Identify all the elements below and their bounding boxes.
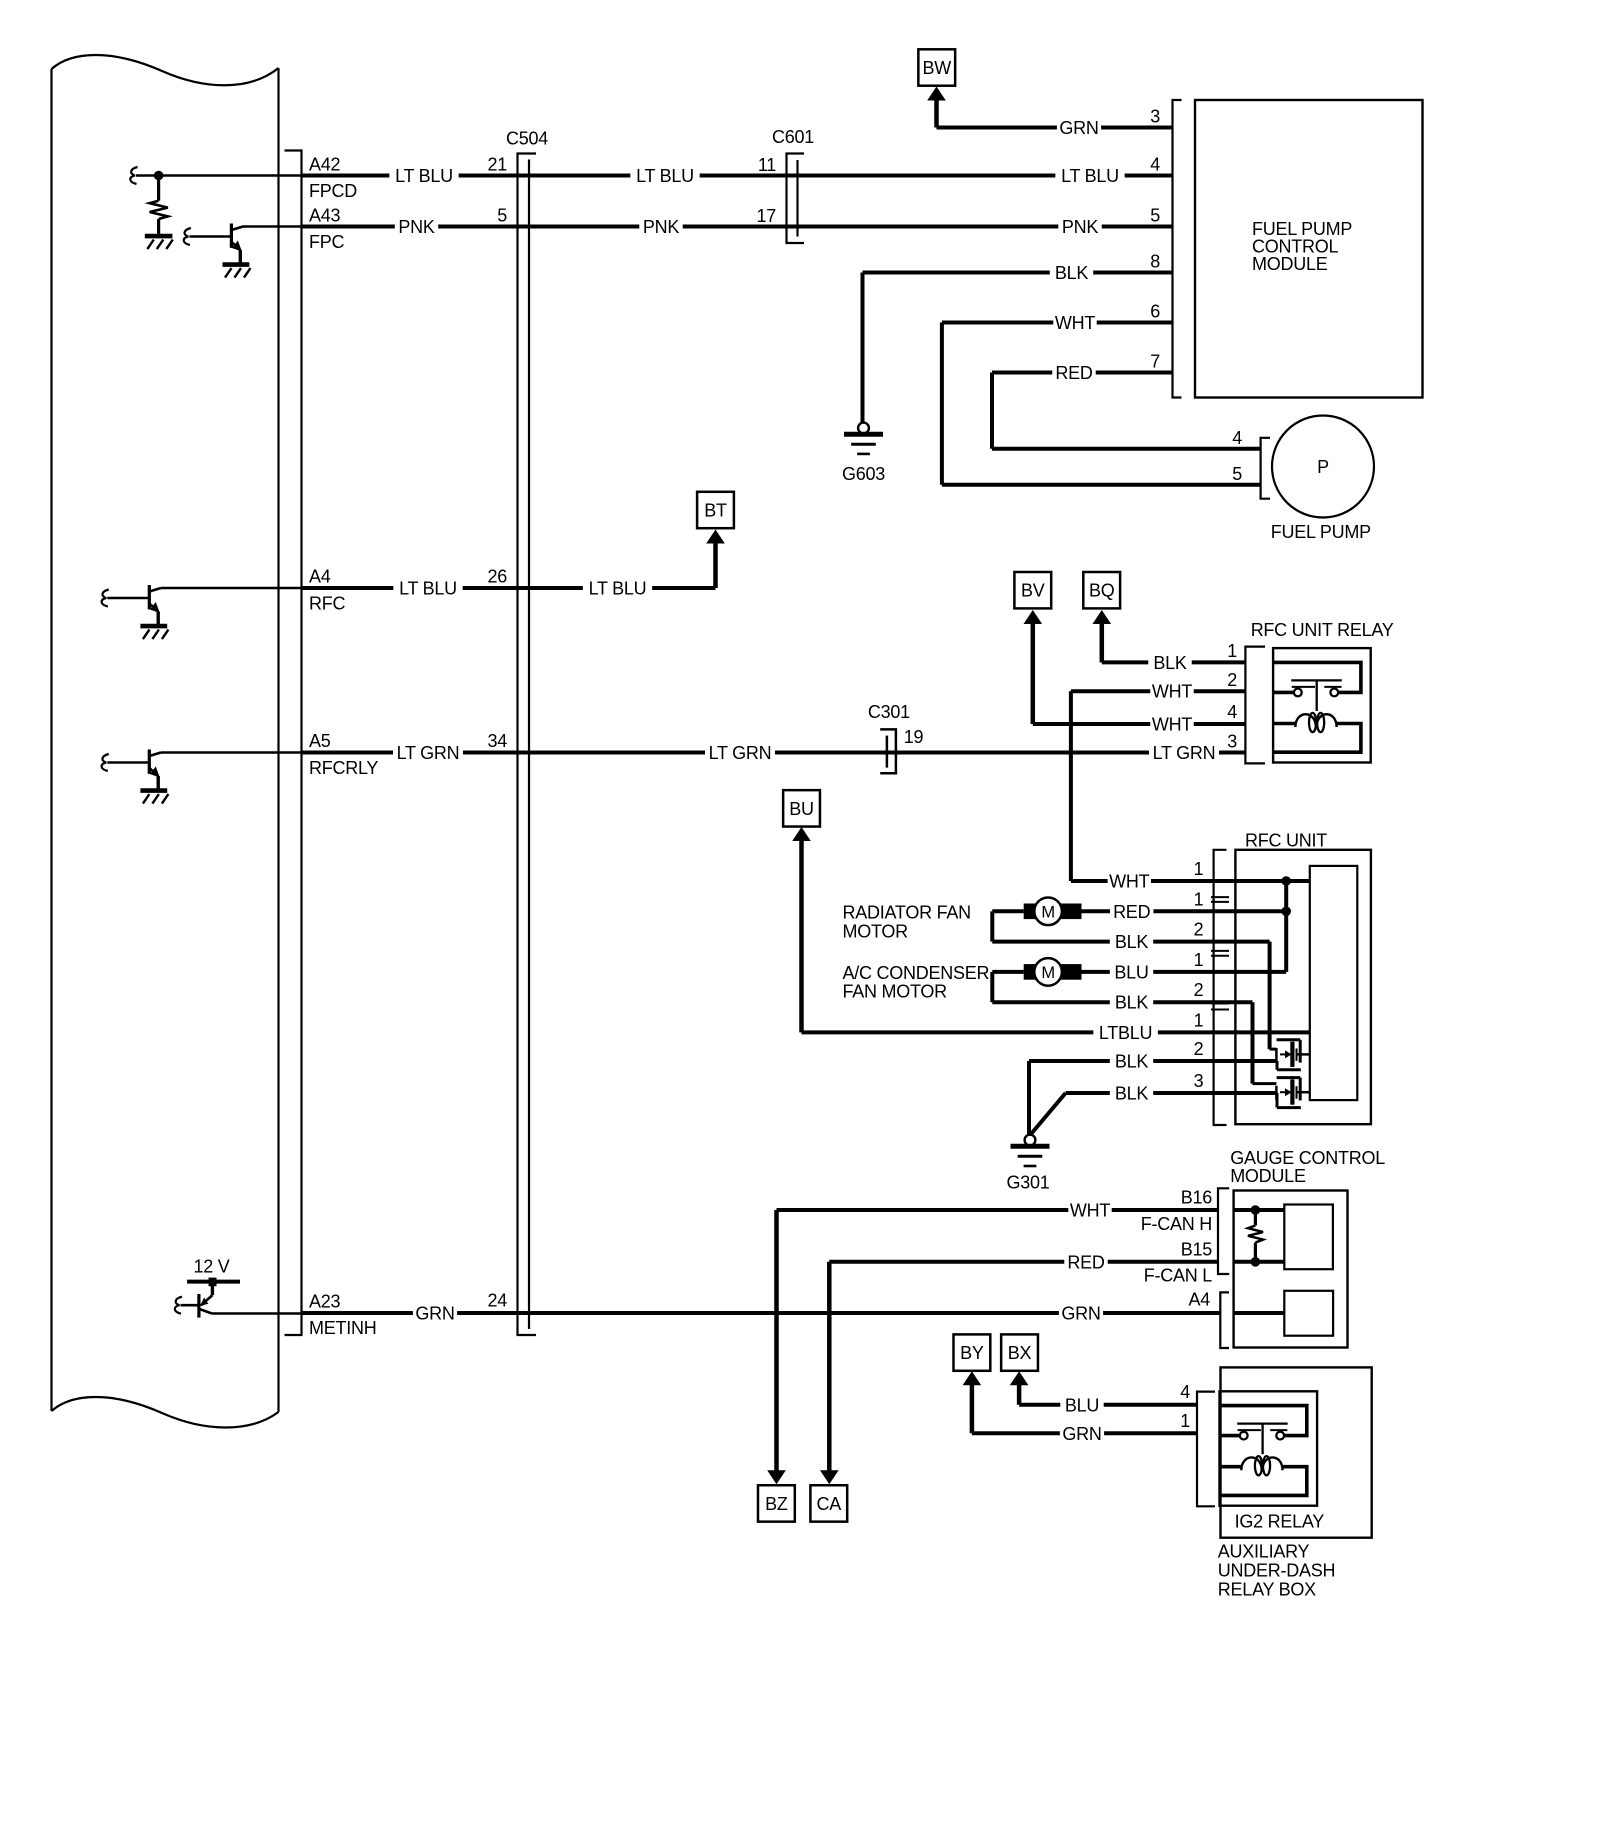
svg-text:PNK: PNK (643, 217, 680, 237)
RFC unit inner control block (1310, 866, 1358, 1100)
pin number 5 (C504) (497, 206, 507, 226)
svg-text:6: 6 (1150, 302, 1160, 322)
svg-text:RED: RED (1055, 363, 1093, 383)
svg-text:2: 2 (1227, 670, 1237, 690)
ground G603 (844, 423, 883, 454)
svg-text:BLK: BLK (1115, 993, 1149, 1013)
svg-text:5: 5 (1232, 464, 1242, 484)
svg-text:GRN: GRN (1062, 1424, 1101, 1444)
wire LTBLU (BU to RFC unit pin 1) (802, 1023, 1310, 1043)
wire A5 internal (thin) (161, 751, 302, 754)
wire WHT F-CAN H (GCM B16 to BZ) (777, 1201, 1219, 1473)
supply 12 V bar (187, 1278, 240, 1287)
IG2 relay K2 internals (contact + coil) (1219, 1406, 1307, 1496)
svg-text:WHT: WHT (1152, 715, 1192, 735)
svg-text:CA: CA (817, 1494, 842, 1514)
ground G301 (1011, 1135, 1050, 1166)
auxiliary under-dash relay box outline (1221, 1367, 1372, 1537)
pin number 4 (RFC unit relay) (1227, 702, 1237, 722)
svg-text:4: 4 (1180, 1382, 1190, 1402)
pin number 8 (FPCM) (1150, 252, 1160, 272)
GCM pin bracket (A4) (1220, 1292, 1229, 1348)
wire B15 internal (1234, 1260, 1285, 1264)
RFC unit U-RFC box (1235, 850, 1371, 1124)
svg-text:LT BLU: LT BLU (1061, 166, 1119, 186)
svg-text:C601: C601 (772, 127, 814, 147)
wire GRN (BY to IG2 relay pin 1) (972, 1424, 1197, 1444)
svg-text:GAUGE CONTROL: GAUGE CONTROL (1230, 1148, 1385, 1168)
svg-text:M: M (1041, 904, 1055, 922)
wire GRN (to FPCM pin 3) (937, 118, 1173, 138)
connector C601 label (772, 127, 814, 147)
pin number 34 (C504) (487, 731, 507, 751)
wire WHT (relay pin2 vert to RFC unit pin 1) (1071, 872, 1310, 892)
fuel pump label (1271, 522, 1371, 542)
IG2 relay label (1235, 1512, 1325, 1532)
svg-text:1: 1 (1194, 1011, 1204, 1031)
off-page connector BU (783, 790, 820, 826)
svg-text:MODULE: MODULE (1252, 254, 1328, 274)
svg-text:GRN: GRN (1061, 1304, 1100, 1324)
svg-text:WHT: WHT (1055, 313, 1095, 333)
pin number 4 (fuel pump) (1232, 428, 1242, 448)
svg-text:BLK: BLK (1115, 1084, 1149, 1104)
svg-text:F-CAN H: F-CAN H (1141, 1214, 1212, 1234)
svg-text:RFCRLY: RFCRLY (309, 758, 378, 778)
svg-text:B16: B16 (1181, 1188, 1213, 1208)
RFC unit relay pin bracket (1245, 647, 1265, 764)
svg-text:WHT: WHT (1109, 872, 1149, 892)
junction dot (RED bus) (1281, 907, 1291, 917)
pin number 5 (fuel pump) (1232, 464, 1242, 484)
svg-text:RFC UNIT: RFC UNIT (1245, 831, 1327, 851)
pin number A4 (GCM) (1188, 1290, 1210, 1310)
off-page connector CA (810, 1485, 847, 1521)
supply 12 V label (193, 1257, 229, 1277)
svg-text:3: 3 (1150, 107, 1160, 127)
svg-text:FUEL PUMP: FUEL PUMP (1271, 522, 1371, 542)
svg-text:A4: A4 (309, 567, 331, 587)
wire WHT (BV to RFC unit relay pin 4) (1033, 715, 1246, 735)
wire A4 internal (thin) (161, 587, 302, 590)
connector C504 label (506, 129, 548, 149)
svg-text:C301: C301 (868, 702, 910, 722)
arrow to BV (1024, 610, 1043, 724)
wire LT GRN (C301 to RFC unit relay pin 3) (897, 743, 1245, 763)
wire BLK (M2 return, RFC unit pin 2) (992, 993, 1276, 1084)
net F-CAN L label (1144, 1266, 1212, 1286)
wire BLK (RFC unit pin 2 to G301) (1029, 1052, 1277, 1135)
svg-text:BLU: BLU (1065, 1395, 1099, 1415)
svg-text:1: 1 (1180, 1411, 1190, 1431)
svg-text:FPCD: FPCD (309, 181, 357, 201)
pin number 26 (C504) (487, 567, 507, 587)
wire WHT (RFC unit relay pin 2, down to RFC unit) (1071, 682, 1246, 881)
svg-text:34: 34 (487, 731, 507, 751)
pin number 2 (RFC unit, BLK M2) (1194, 980, 1204, 1000)
svg-text:AUXILIARY: AUXILIARY (1218, 1541, 1310, 1561)
arrow to BZ (767, 1470, 786, 1484)
svg-text:BQ: BQ (1089, 581, 1115, 601)
pin number 1 (RFC unit relay) (1227, 641, 1237, 661)
svg-text:A5: A5 (309, 731, 331, 751)
pin number 3 (RFC unit, BLK gnd) (1194, 1071, 1204, 1091)
svg-text:RFC UNIT RELAY: RFC UNIT RELAY (1251, 620, 1394, 640)
connector break marks (RFC unit bracket) (1211, 897, 1229, 1009)
svg-text:12 V: 12 V (193, 1257, 229, 1277)
A/C condenser fan motor M2 (1024, 958, 1082, 986)
ground G603 label (842, 464, 885, 484)
svg-text:RFC: RFC (309, 594, 345, 614)
fuel pump pin bracket (1261, 438, 1270, 499)
svg-text:BY: BY (960, 1343, 984, 1363)
net FPC label (309, 232, 345, 252)
net RFCRLY label (309, 758, 378, 778)
svg-text:2: 2 (1194, 920, 1204, 940)
svg-text:B15: B15 (1181, 1240, 1213, 1260)
svg-text:LT GRN: LT GRN (1153, 743, 1216, 763)
svg-text:MOTOR: MOTOR (843, 922, 909, 942)
svg-text:RADIATOR FAN: RADIATOR FAN (843, 903, 971, 923)
A/C condenser fan motor label (843, 963, 990, 1002)
svg-text:BZ: BZ (765, 1494, 788, 1514)
svg-text:BLK: BLK (1153, 653, 1187, 673)
wire motor M1 loop (992, 911, 1023, 941)
svg-text:P: P (1317, 457, 1329, 477)
pin number 1 (RFC unit, WHT) (1194, 859, 1204, 879)
RFC unit relay label (1251, 620, 1394, 640)
pin number 2 (RFC unit, BLK M1) (1194, 920, 1204, 940)
svg-text:11: 11 (758, 155, 776, 175)
wire Q1 source to pin 2 BLK (1276, 1061, 1279, 1070)
ground (resistor, chassis) (145, 236, 173, 249)
svg-text:FPC: FPC (309, 232, 345, 252)
svg-text:5: 5 (497, 206, 507, 226)
junction dot A42/resistor (154, 171, 164, 181)
svg-text:A/C CONDENSER: A/C CONDENSER (843, 963, 990, 983)
svg-text:LT BLU: LT BLU (636, 166, 694, 186)
wire RED (M1 to RFC unit pin 1) (1082, 902, 1287, 922)
svg-text:5: 5 (1150, 206, 1160, 226)
connector C301 (880, 729, 896, 773)
ground (Q-FPC emitter) (0, 0, 1, 1)
pin number B16 (1181, 1188, 1213, 1208)
wire B16 internal (1234, 1208, 1285, 1212)
wire BLK (RFC unit pin 3 to G301, diagonal) (1031, 1084, 1277, 1135)
wire A23 internal (thin) (212, 1312, 302, 1315)
svg-text:19: 19 (904, 727, 924, 747)
svg-text:UNDER-DASH: UNDER-DASH (1218, 1561, 1336, 1581)
pin number 6 (FPCM) (1150, 302, 1160, 322)
terminating resistor (F-CAN, in GCM) (1248, 1210, 1263, 1262)
pin A4 label (309, 567, 331, 587)
svg-text:PNK: PNK (398, 217, 435, 237)
svg-text:A23: A23 (309, 1292, 341, 1312)
pin number 3 (RFC unit relay) (1227, 732, 1237, 752)
IG2 relay K2 box (1220, 1391, 1318, 1505)
off-page connector BY (954, 1334, 991, 1370)
radiator fan motor label (843, 903, 971, 942)
junction dot (WHT bus) (1281, 876, 1291, 886)
wire A4 LT BLU (ECM to C504) (302, 579, 537, 599)
svg-text:BLU: BLU (1114, 962, 1148, 982)
svg-text:BLK: BLK (1115, 1052, 1149, 1072)
wire LT BLU (C504 to BT) (536, 539, 716, 599)
wire WHT (FPCM pin 6 to fuel pump 5) (942, 313, 1261, 485)
svg-text:8: 8 (1150, 252, 1160, 272)
transistor Q-FPC (NPN low-side) (184, 224, 251, 278)
svg-text:M: M (1041, 964, 1055, 982)
svg-text:F-CAN L: F-CAN L (1144, 1266, 1212, 1286)
off-page connector BV (1014, 572, 1051, 608)
arrow to BY (963, 1371, 982, 1433)
pin number 4 (IG2 relay) (1180, 1382, 1190, 1402)
junction dot (F-CAN H term) (1251, 1205, 1261, 1215)
wire A42 LT BLU (ECM to C504) (302, 166, 537, 186)
svg-text:MODULE: MODULE (1230, 1166, 1306, 1186)
ECM / PCM module block (left, torn edges) (52, 55, 279, 1428)
connector C504 (518, 154, 537, 1336)
RFC unit relay K1 internals (contact + coil) (1273, 662, 1361, 752)
RFC unit label (1245, 831, 1327, 851)
svg-text:WHT: WHT (1070, 1201, 1110, 1221)
svg-text:A42: A42 (309, 155, 341, 175)
connector C601 (787, 154, 805, 244)
MOSFET Q1 (radiator fan, in RFC unit) (1270, 1040, 1310, 1070)
pin A23 label (309, 1292, 341, 1312)
MOSFET Q2 (A/C fan, in RFC unit) (1276, 1078, 1309, 1108)
svg-text:C504: C504 (506, 129, 548, 149)
resistor (FPCD pull-down) (150, 176, 168, 234)
svg-text:RED: RED (1067, 1252, 1105, 1272)
off-page connector BQ (1083, 572, 1120, 608)
svg-text:BX: BX (1008, 1343, 1032, 1363)
arrow to BT (706, 530, 725, 544)
svg-text:BT: BT (704, 501, 727, 521)
svg-text:2: 2 (1194, 980, 1204, 1000)
svg-text:G301: G301 (1006, 1173, 1049, 1193)
wire RED F-CAN L (GCM B15 to CA) (829, 1252, 1218, 1472)
FPCM text (1252, 219, 1352, 274)
off-page connector BT (697, 492, 734, 528)
pin number 1 (RFC unit, RED) (1194, 890, 1204, 910)
pin number 2 (RFC unit relay) (1227, 670, 1237, 690)
ground G301 label (1006, 1173, 1049, 1193)
transistor Q-RFC (NPN low-side) (102, 585, 169, 639)
gauge control module U-GCM box (1234, 1191, 1348, 1348)
transistor Q-RFCRLY (NPN low-side) (102, 750, 169, 804)
wire A42 internal (thin, hook to pin) (130, 167, 301, 184)
svg-text:4: 4 (1232, 428, 1242, 448)
svg-text:WHT: WHT (1152, 682, 1192, 702)
RFC unit pin bracket (1214, 850, 1227, 1125)
pin number 21 (C504) (487, 155, 507, 175)
wire A5 LT GRN (ECM to C504) (302, 743, 537, 763)
pin number 24 (C504) (487, 1291, 507, 1311)
pin A5 label (309, 731, 331, 751)
off-page connector BW (918, 49, 955, 85)
transistor Q-METINH (PNP high-side) (175, 1286, 213, 1318)
svg-text:PNK: PNK (1062, 217, 1099, 237)
svg-text:2: 2 (1194, 1039, 1204, 1059)
svg-text:BV: BV (1021, 581, 1045, 601)
wire A43 PNK (ECM to C504) (302, 217, 537, 237)
gauge control module label (1230, 1148, 1385, 1186)
svg-text:FAN MOTOR: FAN MOTOR (843, 982, 948, 1002)
arrow to BX (1010, 1371, 1029, 1405)
wire BLK (FPCM pin 8 to G603) (863, 263, 1173, 422)
pin number 3 (FPCM) (1150, 107, 1160, 127)
pin number 17 (C601) (756, 206, 776, 226)
svg-text:1: 1 (1194, 890, 1204, 910)
svg-text:BLK: BLK (1115, 932, 1149, 952)
svg-text:21: 21 (487, 155, 507, 175)
svg-text:BU: BU (789, 799, 814, 819)
wire PNK (C504 to C601) (536, 217, 804, 237)
svg-text:G603: G603 (842, 464, 885, 484)
wire LT GRN (C504 to C301) (536, 743, 897, 763)
RFC unit relay K1 box (1273, 648, 1371, 762)
svg-text:1: 1 (1227, 641, 1237, 661)
pin number B15 (1181, 1240, 1213, 1260)
pin number 4 (FPCM) (1150, 155, 1160, 175)
svg-text:LT BLU: LT BLU (589, 579, 647, 599)
net METINH label (309, 1318, 377, 1338)
pin number 19 (C301) (904, 727, 924, 747)
svg-text:RELAY BOX: RELAY BOX (1218, 1580, 1316, 1600)
svg-text:GRN: GRN (415, 1304, 454, 1324)
net F-CAN H label (1141, 1214, 1212, 1234)
arrow to CA (820, 1470, 839, 1484)
svg-text:3: 3 (1227, 732, 1237, 752)
pin number 1 (IG2 relay) (1180, 1411, 1190, 1431)
wire A23 GRN (ECM to C504) (302, 1304, 537, 1324)
svg-text:17: 17 (756, 206, 776, 226)
wire BLU (BX to IG2 relay pin 4) (1019, 1395, 1197, 1415)
ECM connector pin bracket (285, 151, 302, 1336)
FPCM pin bracket (1173, 100, 1182, 398)
wire bus vertical (WHT/RED/BLU) (1284, 881, 1288, 972)
net RFC label (309, 594, 345, 614)
svg-text:GRN: GRN (1059, 118, 1098, 138)
svg-text:3: 3 (1194, 1071, 1204, 1091)
arrow to BW (927, 87, 946, 128)
GCM inner block (A4) (1284, 1291, 1333, 1336)
wire BLU (M2 to RFC unit pin 1) (1082, 962, 1287, 982)
svg-text:LTBLU: LTBLU (1099, 1023, 1152, 1043)
net FPCD label (309, 181, 357, 201)
pin number 5 (FPCM) (1150, 206, 1160, 226)
fuel pump motor P (1272, 416, 1374, 518)
pin number 11 (C601) (758, 155, 776, 175)
svg-text:26: 26 (487, 567, 507, 587)
wire A4 internal (GCM) (1234, 1311, 1285, 1315)
wire LT BLU (C601 to FPCM pin 4) (804, 166, 1173, 186)
pin number 1 (RFC unit, LTBLU) (1194, 1011, 1204, 1031)
pin A42 label (309, 155, 341, 175)
svg-text:1: 1 (1194, 950, 1204, 970)
wire BLK (BQ to RFC unit relay pin 1) (1102, 653, 1246, 673)
svg-text:4: 4 (1227, 702, 1237, 722)
wire A43 internal (thin) (243, 225, 302, 228)
wire PNK (C601 to FPCM pin 5) (804, 217, 1173, 237)
IG2 relay pin bracket (1197, 1392, 1215, 1507)
svg-text:LT BLU: LT BLU (399, 579, 457, 599)
pin number 2 (RFC unit, BLK gnd) (1194, 1039, 1204, 1059)
wire BLK (M1 return, RFC unit pin 2) (992, 932, 1269, 1049)
svg-text:METINH: METINH (309, 1318, 377, 1338)
wire RED (FPCM pin 7 to fuel pump 4) (992, 363, 1261, 449)
GCM inner block (F-CAN) (1284, 1205, 1333, 1270)
svg-text:1: 1 (1194, 859, 1204, 879)
off-page connector BZ (758, 1485, 795, 1521)
off-page connector BX (1001, 1334, 1038, 1370)
junction dot (F-CAN L term) (1251, 1257, 1261, 1267)
connector C301 label (868, 702, 910, 722)
arrow to BU (792, 827, 811, 1032)
svg-text:RED: RED (1113, 902, 1151, 922)
svg-text:BW: BW (923, 58, 952, 78)
pin A43 label (309, 206, 341, 226)
pin number 7 (FPCM) (1150, 352, 1160, 372)
svg-text:4: 4 (1150, 155, 1160, 175)
svg-text:BLK: BLK (1055, 263, 1089, 283)
svg-text:LT BLU: LT BLU (395, 166, 453, 186)
radiator fan motor M1 (1024, 898, 1082, 926)
svg-text:LT GRN: LT GRN (397, 743, 460, 763)
svg-text:A4: A4 (1188, 1290, 1210, 1310)
wire motor M2 loop (992, 972, 1023, 1002)
svg-text:7: 7 (1150, 352, 1160, 372)
wire GRN (C504 to GCM pin A4) (536, 1304, 1220, 1324)
svg-text:A43: A43 (309, 206, 341, 226)
auxiliary under-dash relay box label (1218, 1541, 1336, 1599)
wire Q2 source to pin 3 BLK (1276, 1093, 1279, 1108)
GCM pin bracket (B16/B15) (1218, 1188, 1229, 1274)
svg-text:LT GRN: LT GRN (709, 743, 772, 763)
pin number 1 (RFC unit, BLU) (1194, 950, 1204, 970)
fuel pump control module U-FPCM box (1195, 100, 1423, 398)
svg-text:24: 24 (487, 1291, 507, 1311)
svg-text:IG2 RELAY: IG2 RELAY (1235, 1512, 1325, 1532)
arrow to BQ (1093, 610, 1112, 662)
wire LT BLU (C504 to C601) (536, 166, 804, 186)
